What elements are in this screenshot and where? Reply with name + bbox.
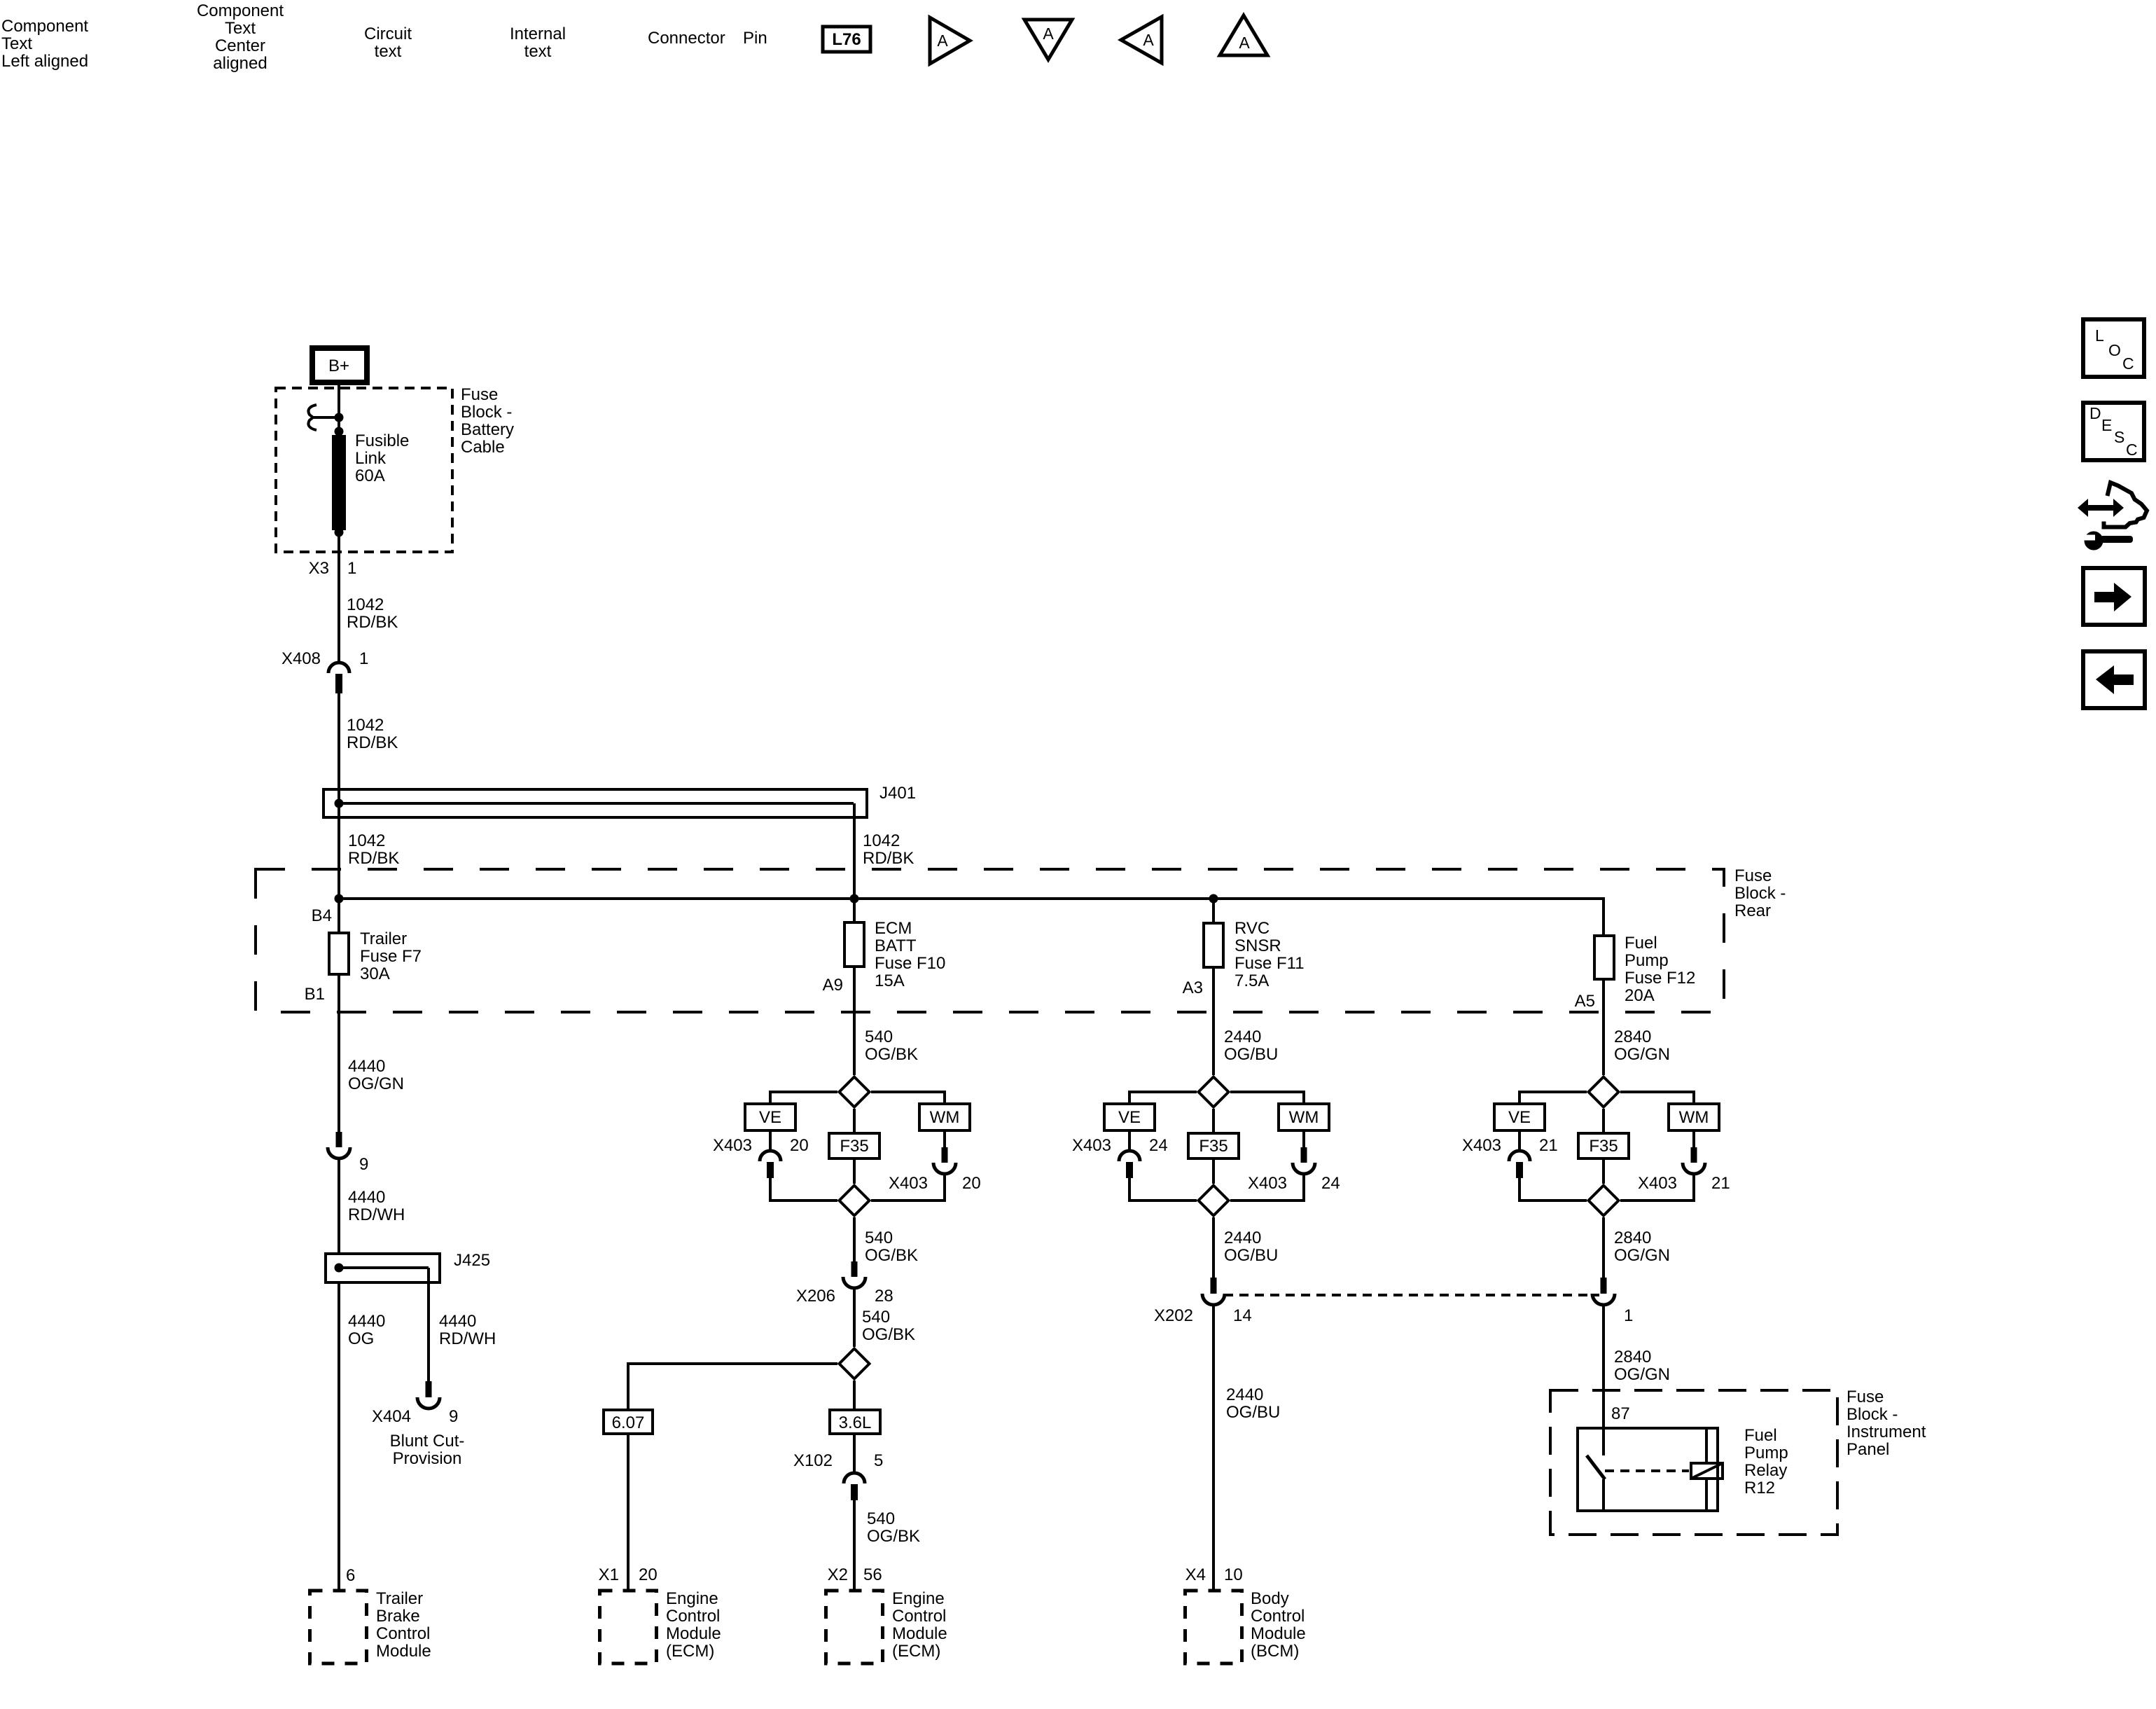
wire VE connector to lower diamond ECM [770,1178,837,1201]
icon: back arrow box [2083,651,2145,708]
svg-text:FusibleLink60A: FusibleLink60A [355,431,409,485]
wire diamond to VE PUMP [1519,1092,1587,1104]
svg-text:FuseBlock -InstrumentPanel: FuseBlock -InstrumentPanel [1846,1388,1926,1459]
svg-text:1042RD/BK: 1042RD/BK [347,595,398,632]
svg-text:3.6L: 3.6L [839,1413,872,1432]
svg-text:6: 6 [346,1566,355,1585]
splice diamond lower ECM [840,1186,870,1216]
wire F35 to lower diamond RVC [1212,1158,1215,1184]
wire diamond to VE RVC [1129,1092,1197,1104]
svg-text:WM: WM [930,1108,960,1127]
svg-text:FuseBlock -BatteryCable: FuseBlock -BatteryCable [461,385,514,457]
svg-text:C: C [2122,354,2134,373]
svg-text:87: 87 [1611,1404,1630,1423]
svg-text:56: 56 [863,1565,882,1584]
svg-text:20: 20 [639,1565,658,1584]
body control module dashed box [1185,1591,1242,1663]
wire lower diamond to X202 [1212,1217,1215,1278]
svg-text:WM: WM [1289,1108,1319,1127]
blunt cut connector X404 symbol [426,1381,432,1397]
wire X102 to ECM connector X2 [853,1500,856,1591]
svg-text:4440RD/WH: 4440RD/WH [439,1312,496,1348]
svg-text:B1: B1 [305,985,325,1004]
relay switch contact [1587,1455,1605,1479]
inline connector pin 9 symbol [336,1132,342,1147]
svg-text:Circuittext: Circuittext [364,25,412,61]
wire WM to connector PUMP [1692,1130,1695,1149]
wire 6.07 box to ECM connector X1 [627,1434,630,1591]
wire WM to connector ECM [943,1130,946,1149]
fuse block - instrument panel dashed box [1550,1390,1837,1535]
svg-text:E: E [2101,416,2112,434]
wire diamond to WM ECM [871,1092,945,1104]
wire WM connector to lower diamond RVC [1230,1175,1304,1201]
svg-text:B4: B4 [312,906,332,925]
wire F35 to lower diamond PUMP [1602,1158,1605,1184]
svg-text:FuelPumpRelayR12: FuelPumpRelayR12 [1744,1426,1788,1497]
connector X408 symbol [328,663,349,673]
VE box RVC [1104,1104,1155,1130]
svg-text:EngineControlModule(ECM): EngineControlModule(ECM) [666,1589,721,1661]
wire VE connector to lower diamond RVC [1129,1178,1197,1201]
relay coil wire lower [1705,1479,1708,1511]
svg-text:L76: L76 [832,30,861,49]
svg-text:Blunt Cut-Provision: Blunt Cut-Provision [390,1432,465,1468]
svg-text:5: 5 [874,1451,883,1470]
svg-text:2440OG/BU: 2440OG/BU [1226,1385,1280,1422]
svg-text:J425: J425 [454,1251,490,1270]
svg-text:1042RD/BK: 1042RD/BK [347,716,398,752]
svg-text:X102: X102 [793,1451,833,1470]
legend symbol: up-pointing triangle A [1220,15,1267,55]
svg-text:X4: X4 [1185,1565,1206,1584]
wire X202 to BCM connector X4 [1212,1306,1215,1591]
svg-text:A: A [937,32,948,50]
junction dot bus B4 [335,894,344,904]
VE box PUMP [1494,1104,1545,1130]
svg-text:1042RD/BK: 1042RD/BK [863,831,914,868]
VE box ECM [745,1104,795,1130]
svg-text:4440OG: 4440OG [348,1312,385,1348]
wire diamond to F35 RVC [1212,1109,1215,1133]
svg-text:540OG/BK: 540OG/BK [865,1028,918,1064]
svg-text:20: 20 [790,1136,809,1155]
wire diamond to F35 PUMP [1602,1109,1605,1133]
svg-text:FuelPumpFuse F1220A: FuelPumpFuse F1220A [1625,934,1695,1005]
svg-text:1: 1 [359,649,368,668]
svg-text:24: 24 [1149,1136,1168,1155]
wire diamond to WM PUMP [1620,1092,1694,1104]
junction dot in J425 [335,1264,344,1273]
svg-text:F35: F35 [1199,1137,1227,1156]
svg-text:D: D [2089,404,2101,422]
svg-text:O: O [2108,341,2121,359]
svg-text:J401: J401 [879,784,916,803]
wire connector 1 to fuel pump relay [1602,1306,1605,1456]
trailer fuse F7 30A [329,933,349,974]
svg-text:28: 28 [875,1287,893,1306]
icon: forward arrow box [2083,568,2145,625]
svg-text:X206: X206 [796,1287,835,1306]
svg-text:RVCSNSRFuse F117.5A: RVCSNSRFuse F117.5A [1235,919,1305,990]
RVC SNSR fuse F11 7.5A [1204,923,1223,967]
wire bus to RVC SNSR fuse [1212,899,1215,922]
svg-text:A5: A5 [1575,992,1595,1011]
svg-text:9: 9 [449,1407,458,1426]
svg-text:X403: X403 [1248,1174,1287,1193]
fuse block rear bus wire [339,899,1604,934]
wire RVC fuse to upper diamond [1212,967,1215,1075]
wire VE connector to lower diamond PUMP [1519,1178,1587,1201]
wire fuel pump fuse to upper diamond [1602,979,1605,1075]
svg-text:Pin: Pin [743,29,767,48]
svg-text:2440OG/BU: 2440OG/BU [1224,1028,1278,1064]
svg-text:X403: X403 [713,1136,752,1155]
wire WM connector to lower diamond PUMP [1620,1175,1694,1201]
wire J401 right leg down [853,803,856,899]
splice J425 box [326,1254,440,1282]
WM box ECM [919,1104,970,1130]
legend symbol: down-pointing triangle A [1024,20,1072,60]
svg-text:X403: X403 [889,1174,928,1193]
splice diamond lower RVC [1199,1186,1229,1216]
icon: DESC box [2083,403,2144,460]
F35 box ECM [829,1133,879,1158]
svg-text:VE: VE [759,1108,781,1127]
wire splice to 6.07 box [628,1364,837,1409]
svg-text:ComponentTextLeft aligned: ComponentTextLeft aligned [1,17,88,71]
clip symbol on battery feed [308,405,317,430]
splice diamond upper RVC [1199,1077,1229,1107]
fusible link 60A element [332,435,346,530]
dashed connector tie line X202 to fuel pump connector [1224,1294,1599,1296]
F35 box RVC [1188,1133,1239,1158]
relay actuation dashed line [1605,1469,1689,1472]
icon: LOC box [2083,319,2144,377]
junction dot bus A9 branch [850,894,859,904]
connector X403 VE-side symbol RVC [1119,1151,1140,1161]
svg-text:24: 24 [1321,1174,1340,1193]
svg-text:C: C [2126,441,2138,459]
svg-text:VE: VE [1508,1108,1531,1127]
wire X206 to splice diamond [853,1289,856,1348]
connector X403 WM-side symbol ECM [942,1147,948,1163]
connector X102 symbol [844,1473,865,1483]
svg-text:9: 9 [359,1155,368,1174]
svg-text:21: 21 [1711,1174,1730,1193]
engine option box 3.6L [830,1410,880,1434]
fuel pump relay R12 box [1578,1428,1718,1511]
wire diamond to F35 ECM [853,1109,856,1133]
WM box PUMP [1669,1104,1719,1130]
svg-text:4440OG/GN: 4440OG/GN [348,1057,404,1093]
svg-text:X403: X403 [1072,1136,1111,1155]
wire trailer fuse to connector 9 [338,976,340,1132]
svg-text:2840OG/GN: 2840OG/GN [1614,1028,1670,1064]
svg-text:2840OG/GN: 2840OG/GN [1614,1348,1670,1384]
svg-text:VE: VE [1118,1108,1141,1127]
junction dot at fusible link top [335,427,344,436]
svg-text:6.07: 6.07 [612,1413,645,1432]
connector X202 symbol [1211,1278,1217,1294]
wire diamond to WM RVC [1230,1092,1304,1104]
ECM BATT fuse F10 15A [844,922,864,967]
svg-text:ComponentTextCenteraligned: ComponentTextCenteraligned [197,1,284,73]
wire X408 to splice J401 [338,693,340,789]
wire bus to ECM BATT fuse [853,899,856,921]
svg-text:1: 1 [347,559,356,578]
svg-text:ECMBATTFuse F1015A: ECMBATTFuse F1015A [875,919,945,990]
svg-text:TrailerBrakeControlModule: TrailerBrakeControlModule [376,1589,431,1661]
svg-text:A3: A3 [1183,978,1203,997]
wire splice to 3.6L box [853,1381,856,1410]
svg-text:2440OG/BU: 2440OG/BU [1224,1229,1278,1265]
wire WM to connector RVC [1302,1130,1305,1149]
legend symbol: component code box L76 [823,27,870,52]
svg-text:B+: B+ [328,357,349,375]
connector X403 VE-side symbol PUMP [1509,1151,1530,1161]
svg-text:21: 21 [1539,1136,1558,1155]
svg-text:X404: X404 [372,1407,411,1426]
wire VE to connector RVC [1128,1130,1131,1150]
svg-text:EngineControlModule(ECM): EngineControlModule(ECM) [892,1589,947,1661]
relay coil wire upper [1705,1428,1708,1463]
svg-text:1042RD/BK: 1042RD/BK [348,831,399,868]
icon: connector-view tool (double arrow, connector outline, wrench) [2078,483,2147,551]
svg-text:X403: X403 [1638,1174,1677,1193]
F35 box PUMP [1578,1133,1629,1158]
wire ECM fuse to upper diamond [853,967,856,1075]
wire connector 9 to splice J425 [338,1159,340,1254]
svg-text:F35: F35 [840,1137,868,1156]
WM box RVC [1279,1104,1329,1130]
connector X206 symbol [851,1261,858,1277]
splice diamond upper ECM [840,1077,870,1107]
svg-text:4440RD/WH: 4440RD/WH [348,1188,405,1224]
svg-text:540OG/BK: 540OG/BK [862,1308,915,1344]
svg-text:X3: X3 [309,559,329,578]
svg-text:FuseBlock -Rear: FuseBlock -Rear [1734,866,1786,920]
engine option box 6.07 [604,1410,653,1434]
svg-text:20: 20 [962,1174,981,1193]
junction dot in J401 [335,799,344,808]
svg-text:F35: F35 [1589,1137,1618,1156]
wire bus to trailer fuse [338,899,340,932]
wire J425 right leg to blunt cut [427,1281,430,1383]
svg-text:Connector: Connector [648,29,725,48]
wire B+ to fusible link [338,382,340,437]
engine control module 2 dashed box [826,1591,883,1663]
fuel pump feed connector symbol [1601,1278,1607,1294]
engine control module 1 dashed box [600,1591,657,1663]
svg-text:A9: A9 [823,976,843,995]
svg-text:X202: X202 [1154,1306,1193,1325]
svg-text:540OG/BK: 540OG/BK [867,1509,920,1546]
trailer brake control module dashed box [310,1591,367,1663]
svg-text:S: S [2114,428,2124,446]
wire lower diamond to X206 [853,1217,856,1261]
svg-text:10: 10 [1224,1565,1243,1584]
wire 3.6L box to connector X102 [853,1434,856,1472]
fuse block - battery cable dashed box [276,388,452,552]
svg-text:X2: X2 [828,1565,848,1584]
svg-text:TrailerFuse F730A: TrailerFuse F730A [360,929,422,983]
junction dot above fusible link [335,413,344,422]
wire WM connector to lower diamond ECM [871,1175,945,1201]
wire J425 left leg to trailer brake module [338,1282,340,1591]
connector X403 VE-side symbol ECM [760,1151,781,1161]
svg-text:A: A [1043,25,1054,43]
wire J401 left leg to fuse block bus [338,803,340,899]
svg-text:1: 1 [1624,1306,1633,1325]
svg-text:X408: X408 [281,649,321,668]
svg-text:BodyControlModule(BCM): BodyControlModule(BCM) [1251,1589,1306,1661]
svg-text:A: A [1239,34,1250,52]
wire VE to connector PUMP [1518,1130,1521,1150]
svg-text:14: 14 [1233,1306,1252,1325]
svg-text:Internaltext: Internaltext [510,25,566,61]
legend symbol: left-pointing triangle A [1121,17,1162,63]
splice diamond upper PUMP [1589,1077,1619,1107]
wire VE to connector ECM [769,1130,772,1150]
wire F35 to lower diamond ECM [853,1158,856,1184]
legend symbol: right-pointing triangle A [930,18,970,64]
wire diamond to VE ECM [770,1092,837,1104]
splice diamond lower PUMP [1589,1186,1619,1216]
svg-text:A: A [1143,31,1154,49]
connector X403 WM-side symbol PUMP [1691,1147,1697,1163]
connector X403 WM-side symbol RVC [1301,1147,1307,1163]
svg-text:L: L [2095,326,2104,345]
svg-text:2840OG/GN: 2840OG/GN [1614,1229,1670,1265]
svg-text:X403: X403 [1462,1136,1501,1155]
svg-text:WM: WM [1679,1108,1709,1127]
wire fusible link to connector X3 [338,530,340,661]
svg-text:540OG/BK: 540OG/BK [865,1229,918,1265]
wire lower diamond to connector 1 [1602,1217,1605,1278]
splice diamond S-ECM [840,1349,870,1379]
battery positive terminal B+ [312,348,367,382]
junction dot bus A3 branch [1209,894,1218,904]
relay coil [1691,1463,1723,1479]
junction dot at fusible link bottom [335,528,344,537]
fuse block - rear dashed box [256,869,1724,1012]
splice J401 bus [324,789,867,817]
svg-text:X1: X1 [599,1565,619,1584]
fuel pump fuse F12 20A [1594,936,1614,979]
